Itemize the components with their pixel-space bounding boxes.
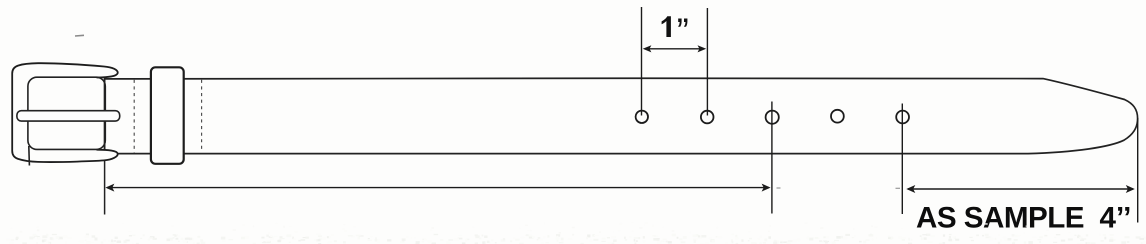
svg-text:AS SAMPLE: AS SAMPLE [916,202,1085,235]
svg-text:”: ” [677,10,689,51]
svg-text:4’’: 4’’ [1100,202,1132,235]
